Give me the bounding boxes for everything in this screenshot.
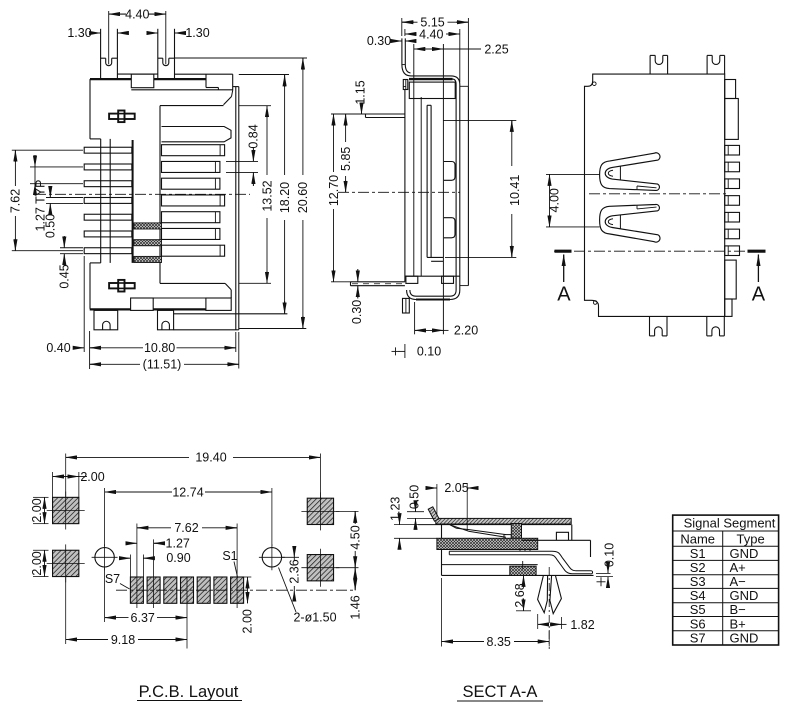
svg-text:2.00: 2.00: [241, 609, 255, 633]
svg-text:4.40: 4.40: [125, 7, 149, 21]
svg-text:(11.51): (11.51): [143, 358, 182, 372]
svg-text:S1: S1: [690, 546, 706, 561]
svg-text:GND: GND: [730, 588, 759, 603]
svg-text:Signal Segment: Signal Segment: [684, 515, 776, 530]
svg-text:7.62: 7.62: [9, 189, 23, 213]
svg-text:0.30: 0.30: [367, 34, 391, 48]
svg-text:GND: GND: [730, 631, 759, 646]
svg-text:0.30: 0.30: [350, 300, 364, 324]
svg-text:4.50: 4.50: [349, 525, 363, 549]
svg-text:1.27: 1.27: [166, 537, 190, 551]
svg-text:2.20: 2.20: [454, 324, 478, 338]
svg-text:2.00: 2.00: [30, 498, 44, 522]
svg-text:5.85: 5.85: [339, 147, 353, 171]
svg-text:20.60: 20.60: [296, 182, 310, 213]
svg-text:S2: S2: [690, 560, 706, 575]
svg-text:S4: S4: [690, 588, 706, 603]
svg-text:9.18: 9.18: [111, 633, 135, 647]
svg-text:Name: Name: [680, 531, 715, 546]
svg-text:A: A: [557, 284, 571, 306]
svg-text:0.84: 0.84: [247, 124, 261, 148]
svg-text:B+: B+: [730, 616, 746, 631]
svg-text:8.35: 8.35: [487, 635, 511, 649]
svg-text:B−: B−: [730, 602, 746, 617]
svg-text:12.70: 12.70: [327, 175, 341, 206]
svg-text:12.74: 12.74: [172, 485, 203, 499]
svg-text:Type: Type: [737, 531, 765, 546]
svg-text:S1: S1: [222, 549, 237, 563]
svg-text:2.25: 2.25: [484, 42, 508, 56]
svg-text:A+: A+: [730, 560, 746, 575]
svg-text:1.82: 1.82: [570, 618, 594, 632]
svg-text:2-ø1.50: 2-ø1.50: [293, 611, 336, 625]
svg-text:0.50: 0.50: [44, 214, 58, 238]
svg-text:7.62: 7.62: [174, 521, 198, 535]
svg-text:S7: S7: [690, 631, 706, 646]
svg-text:0.10: 0.10: [417, 345, 441, 359]
svg-text:19.40: 19.40: [195, 451, 226, 465]
svg-text:10.41: 10.41: [508, 175, 522, 206]
svg-text:1.30: 1.30: [67, 26, 91, 40]
svg-text:1.23: 1.23: [388, 497, 402, 521]
svg-text:2.05: 2.05: [444, 481, 468, 495]
svg-text:4.00: 4.00: [548, 188, 562, 212]
svg-text:A−: A−: [730, 574, 746, 589]
svg-text:18.20: 18.20: [278, 182, 292, 213]
svg-text:S5: S5: [690, 602, 706, 617]
svg-text:S3: S3: [690, 574, 706, 589]
svg-text:GND: GND: [730, 546, 759, 561]
svg-text:2.00: 2.00: [80, 470, 104, 484]
svg-text:1.30: 1.30: [185, 26, 209, 40]
svg-text:4.40: 4.40: [419, 27, 443, 41]
svg-text:1.15: 1.15: [354, 80, 368, 104]
svg-text:SECT A-A: SECT A-A: [463, 683, 538, 701]
svg-text:0.40: 0.40: [46, 341, 70, 355]
svg-text:0.10: 0.10: [603, 543, 617, 567]
svg-text:6.37: 6.37: [131, 611, 155, 625]
svg-text:2.36: 2.36: [288, 559, 302, 583]
svg-text:0.90: 0.90: [166, 551, 190, 565]
svg-text:P.C.B. Layout: P.C.B. Layout: [139, 683, 239, 701]
svg-text:S7: S7: [105, 572, 120, 586]
svg-text:2.68: 2.68: [513, 583, 527, 607]
svg-text:0.50: 0.50: [407, 485, 421, 509]
svg-text:13.52: 13.52: [260, 180, 274, 211]
svg-text:S6: S6: [690, 616, 706, 631]
svg-text:1.46: 1.46: [349, 595, 363, 619]
svg-text:0.45: 0.45: [58, 264, 72, 288]
svg-text:2.00: 2.00: [30, 551, 44, 575]
svg-text:A: A: [752, 284, 766, 306]
svg-text:10.80: 10.80: [144, 341, 175, 355]
